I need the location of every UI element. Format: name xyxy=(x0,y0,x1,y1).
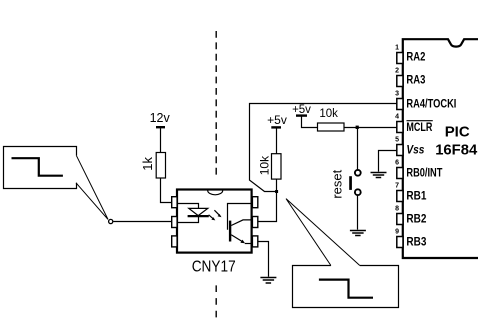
svg-text:RA3: RA3 xyxy=(406,75,425,87)
svg-text:5: 5 xyxy=(395,136,399,143)
svg-text:1: 1 xyxy=(395,44,399,51)
svg-text:PIC: PIC xyxy=(445,124,470,141)
light arrow 2 xyxy=(214,210,221,217)
wire emitter pin 4 to ground xyxy=(258,242,269,277)
svg-text:CNY17: CNY17 xyxy=(192,258,236,275)
power 12v symbol xyxy=(150,111,171,127)
LED D1 anode lead xyxy=(177,204,199,209)
power +5v symbol (collector pullup) xyxy=(267,113,287,128)
callout box (collector waveform) xyxy=(293,266,399,308)
PIC chip U2 body 16F84 xyxy=(403,39,478,258)
svg-text:MCLR: MCLR xyxy=(406,122,433,134)
pin 2 box RA3 xyxy=(395,67,425,86)
wire +5v to resistor 10k vertical xyxy=(276,128,278,153)
power +5v symbol (MCLR pullup) xyxy=(292,104,311,116)
callout pointer to collector node xyxy=(286,199,360,266)
isolation barrier dashed line (top segment) xyxy=(215,31,217,179)
input terminal (open circle) xyxy=(109,219,113,223)
svg-text:4: 4 xyxy=(395,113,399,120)
wire resistor 1k to optocoupler anode pin 1 xyxy=(161,178,172,203)
light arrow 1 xyxy=(209,215,216,221)
opto pin 6 (base) xyxy=(252,197,257,208)
pin 1 box RA2 xyxy=(395,44,425,63)
svg-text:RA2: RA2 xyxy=(406,52,425,64)
node junction MCLR/reset xyxy=(356,126,359,129)
pin 4 box MCLR xyxy=(395,113,433,134)
ground (Vss) xyxy=(371,173,387,178)
wire RA4/TOCKI to collector node xyxy=(250,104,397,192)
svg-text:16F84: 16F84 xyxy=(435,141,478,158)
svg-text:reset: reset xyxy=(330,169,345,198)
ground (reset switch) xyxy=(350,231,366,236)
node junction collector/RA4 xyxy=(275,190,278,193)
svg-text:10k: 10k xyxy=(319,108,338,120)
opto pin 5 (collector) xyxy=(252,217,257,228)
svg-text:12v: 12v xyxy=(150,111,171,125)
opto pin 1 (anode) xyxy=(172,197,177,208)
pin 6 box RB0/INT xyxy=(395,159,442,179)
phototransistor Q1 base bar xyxy=(229,221,231,242)
optocoupler notch xyxy=(208,191,223,195)
wire junction to reset switch xyxy=(357,128,359,170)
svg-text:1k: 1k xyxy=(140,157,155,171)
resistor 1k xyxy=(140,153,166,179)
phototransistor Q1 emitter lead xyxy=(231,235,250,244)
pin 5 box Vss xyxy=(395,136,424,156)
svg-text:RB2: RB2 xyxy=(406,214,426,226)
wire junction to optocoupler collector pin 5 xyxy=(258,191,277,221)
svg-text:+5v: +5v xyxy=(292,104,311,116)
opto pin 3 (nc) xyxy=(172,236,177,247)
callout box (input waveform) xyxy=(4,147,77,189)
wire resistor to collector node xyxy=(276,179,278,191)
svg-text:RB1: RB1 xyxy=(406,191,427,203)
svg-text:7: 7 xyxy=(395,182,399,189)
pin 8 box RB2 xyxy=(395,205,426,225)
wire terminal to optocoupler cathode pin 2 xyxy=(113,221,172,223)
wire +5v to resistor 10k xyxy=(302,117,318,128)
svg-text:RB0/INT: RB0/INT xyxy=(406,168,442,180)
callout pointer to input terminal xyxy=(76,156,108,220)
switch SW1 reset pushbutton xyxy=(330,169,361,198)
svg-text:8: 8 xyxy=(395,205,399,212)
LED D1 triangle xyxy=(189,208,208,215)
pin 3 box RA4/TOCKI xyxy=(395,90,456,110)
resistor 10k (collector pullup) xyxy=(257,154,281,179)
svg-text:10k: 10k xyxy=(257,155,271,175)
wire Vss to ground xyxy=(379,151,397,172)
wire resistor to MCLR pin xyxy=(344,127,397,129)
opto pin 4 (emitter) xyxy=(252,236,257,247)
waveform falling edge (input) xyxy=(12,158,63,176)
LED D1 cathode bar xyxy=(188,215,209,217)
optocoupler U1 body xyxy=(177,190,252,253)
LED D1 cathode lead xyxy=(177,217,199,223)
pin 7 box RB1 xyxy=(395,182,427,202)
phototransistor Q1 base lead xyxy=(228,204,251,230)
resistor 10k (MCLR pullup) xyxy=(318,108,345,131)
waveform falling edge (collector) xyxy=(319,280,373,298)
opto pin 2 (cathode) xyxy=(172,217,177,228)
svg-text:+5v: +5v xyxy=(267,113,287,127)
svg-text:3: 3 xyxy=(395,90,399,97)
svg-text:6: 6 xyxy=(395,159,399,166)
phototransistor Q1 collector lead xyxy=(231,220,250,226)
ground (optocoupler emitter) xyxy=(260,278,276,284)
wire reset switch to ground xyxy=(357,196,359,230)
svg-text:RA4/TOCKI: RA4/TOCKI xyxy=(406,99,456,111)
svg-text:Vss: Vss xyxy=(406,145,424,157)
wire 12v to resistor 1k xyxy=(160,128,162,152)
isolation barrier dashed line (bottom segment) xyxy=(215,285,217,318)
svg-text:2: 2 xyxy=(395,67,399,74)
pin 9 box RB3 xyxy=(395,228,426,248)
svg-text:9: 9 xyxy=(395,228,399,235)
svg-text:RB3: RB3 xyxy=(406,237,426,249)
